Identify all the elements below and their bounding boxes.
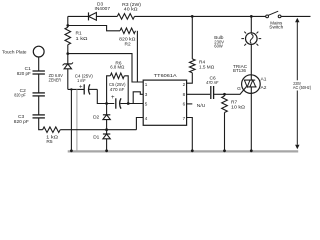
svg-text:3: 3 bbox=[145, 92, 148, 97]
svg-text:6: 6 bbox=[183, 102, 186, 107]
svg-text:60W: 60W bbox=[214, 44, 223, 50]
svg-text:TT6061A: TT6061A bbox=[154, 73, 178, 79]
svg-text:2: 2 bbox=[183, 82, 186, 87]
svg-text:G: G bbox=[237, 86, 241, 92]
svg-text:+: + bbox=[111, 95, 115, 101]
svg-text:A1: A1 bbox=[261, 76, 267, 82]
svg-text:1 mF: 1 mF bbox=[77, 78, 86, 84]
svg-text:8: 8 bbox=[183, 92, 186, 97]
svg-text:ZENER: ZENER bbox=[49, 77, 62, 83]
svg-text:7: 7 bbox=[183, 116, 186, 121]
svg-text:10 kΩ: 10 kΩ bbox=[231, 104, 245, 110]
svg-text:5: 5 bbox=[145, 102, 148, 107]
svg-text:820 pF: 820 pF bbox=[17, 71, 31, 77]
svg-text:820 kΩ: 820 kΩ bbox=[119, 36, 136, 42]
svg-text:470 nF: 470 nF bbox=[206, 80, 219, 86]
svg-text:N/U: N/U bbox=[197, 103, 206, 109]
svg-text:BT136: BT136 bbox=[233, 68, 246, 74]
svg-text:IN4007: IN4007 bbox=[95, 6, 111, 12]
svg-text:R2: R2 bbox=[125, 42, 131, 48]
svg-text:1: 1 bbox=[145, 82, 148, 87]
svg-text:6.8 MΩ: 6.8 MΩ bbox=[110, 65, 124, 71]
svg-text:470 nF: 470 nF bbox=[110, 87, 125, 93]
svg-text:D1: D1 bbox=[93, 134, 99, 140]
svg-text:820 pF: 820 pF bbox=[14, 119, 29, 125]
svg-text:Touch Plate: Touch Plate bbox=[2, 49, 27, 55]
svg-text:1 kΩ: 1 kΩ bbox=[76, 36, 88, 42]
svg-text:D2: D2 bbox=[93, 115, 99, 121]
svg-text:R1: R1 bbox=[76, 31, 82, 37]
svg-text:Switch: Switch bbox=[269, 25, 283, 31]
svg-text:R5: R5 bbox=[46, 139, 52, 145]
svg-text:40 kΩ: 40 kΩ bbox=[124, 6, 138, 12]
svg-text:4: 4 bbox=[145, 116, 148, 121]
svg-text:A2: A2 bbox=[261, 85, 267, 91]
svg-text:1.5 MΩ: 1.5 MΩ bbox=[199, 64, 215, 70]
svg-text:AC (50Hz): AC (50Hz) bbox=[293, 85, 311, 91]
svg-text:820 pF: 820 pF bbox=[14, 92, 26, 98]
svg-text:+: + bbox=[79, 85, 83, 91]
